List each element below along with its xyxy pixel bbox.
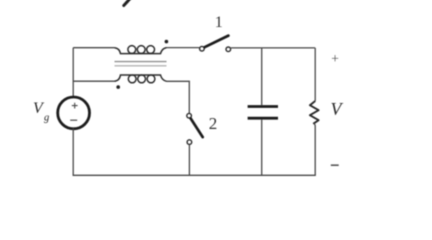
bottom rail xyxy=(73,174,316,176)
stray mark (cropped character, top edge) xyxy=(124,0,131,6)
transformer core xyxy=(115,61,167,63)
wire: switch 2 to bottom rail xyxy=(188,145,190,176)
wire: top rail from switch to right branch xyxy=(231,47,315,49)
svg-text:2: 2 xyxy=(209,114,218,133)
wire: top-left horizontal from left rail to transformer primary xyxy=(73,47,114,49)
wire: source bottom to rail xyxy=(72,129,74,176)
capacitor C plates xyxy=(248,105,278,108)
wire: secondary to switch 2 xyxy=(167,81,190,113)
svg-text:g: g xyxy=(44,113,49,124)
svg-text:V: V xyxy=(331,99,344,119)
resistor bottom wire xyxy=(314,124,315,176)
voltage source + polarity xyxy=(72,103,78,109)
wire: primary to switch 1 xyxy=(167,47,200,49)
transformer primary L1 (top winding) xyxy=(115,48,167,54)
capacitor C branch: top wire xyxy=(261,48,263,105)
capacitor bottom wire xyxy=(261,120,263,176)
wire: left vertical (source branch) xyxy=(72,48,74,98)
polarity dot primary xyxy=(165,40,169,44)
svg-text:1: 1 xyxy=(215,14,223,31)
svg-text:+: + xyxy=(331,51,339,66)
transformer secondary L2 (bottom winding) xyxy=(115,75,167,81)
voltage source Vg (circle) xyxy=(58,97,90,129)
resistor R branch: top wire xyxy=(314,48,316,101)
switch S1 (open, top) xyxy=(200,46,205,51)
wire: middle horizontal to transformer secondary xyxy=(73,80,114,82)
switch S2 (open, vertical) xyxy=(187,113,192,118)
voltage source - polarity xyxy=(70,119,77,121)
resistor R zigzag xyxy=(310,101,319,124)
polarity dot secondary xyxy=(116,85,120,89)
label - (output polarity) xyxy=(331,164,339,166)
